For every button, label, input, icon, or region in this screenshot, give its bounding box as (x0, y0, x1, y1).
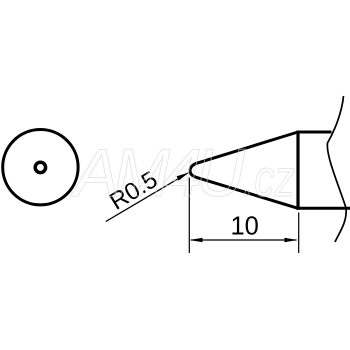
svg-text:10: 10 (231, 213, 259, 241)
svg-text:.cz: .cz (243, 149, 295, 207)
svg-text:AM4U: AM4U (70, 135, 246, 211)
